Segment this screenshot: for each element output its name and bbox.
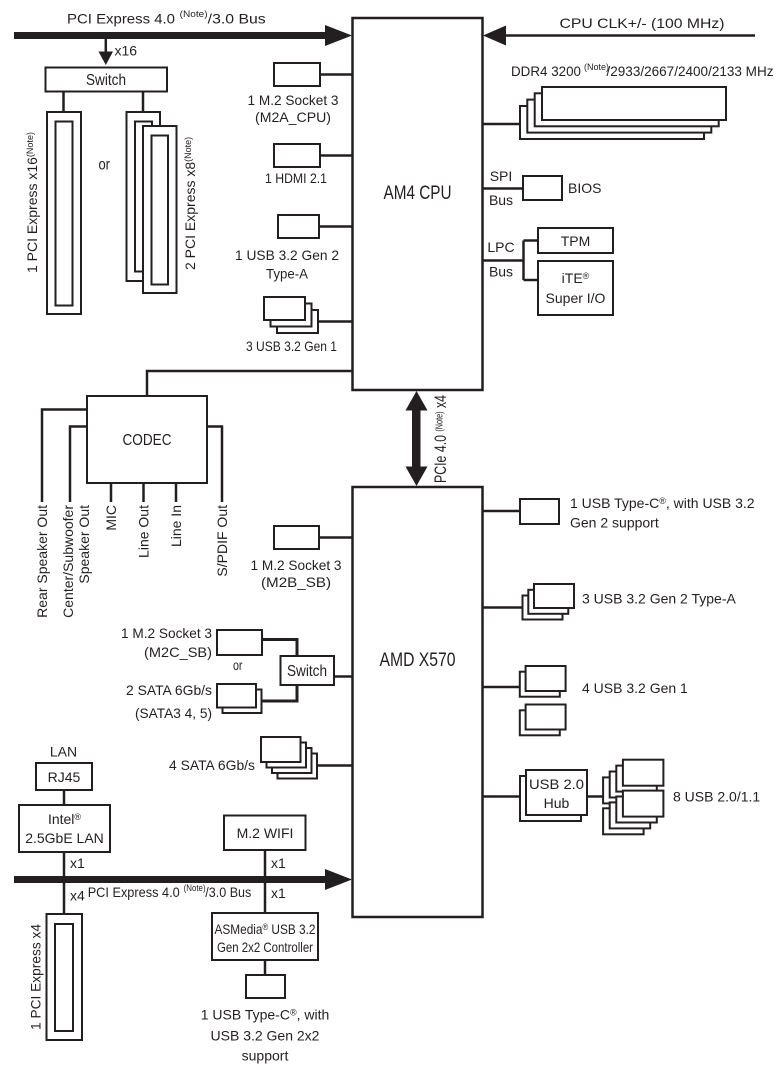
label: PCI Express 4.0/3.0 Bus (top)	[67, 9, 266, 27]
wire: switch to PCIe x16 slot	[62, 92, 65, 113]
CPU U1: AM4 CPU	[353, 18, 483, 390]
label: 2 SATA 6Gb/s (SATA3 4, 5)	[126, 682, 212, 721]
chip U4: iTE Super I/O	[538, 261, 613, 315]
chip U9: Intel 2.5GbE LAN	[19, 805, 110, 852]
wire: X570 to USB hub	[483, 795, 520, 798]
svg-text:CPU CLK+/- (100 MHz): CPU CLK+/- (100 MHz)	[560, 15, 725, 31]
svg-text:S/PDIF Out: S/PDIF Out	[214, 505, 230, 577]
svg-text:PCI Express 4.0: PCI Express 4.0	[88, 884, 180, 900]
controller U10: ASMedia USB 3.2 Gen 2x2	[212, 913, 318, 960]
wire: PCIe 4.0 x4 double arrow CPU to X570	[406, 391, 428, 486]
wire: top PCIe bus with right arrowhead into CPU	[14, 25, 352, 46]
connector: M.2 WIFI socket	[224, 816, 306, 851]
svg-text:Gen 2x2 Controller: Gen 2x2 Controller	[217, 939, 313, 955]
svg-text:Hub: Hub	[544, 795, 570, 811]
switch U7: M2C/SATA switch	[281, 656, 335, 685]
wire: hub to 8 USB stack	[587, 795, 603, 798]
label: Center/Subwoofer Speaker Out (vertical)	[60, 505, 92, 618]
svg-text:LPC: LPC	[487, 239, 514, 255]
svg-text:4 USB 3.2 Gen 1: 4 USB 3.2 Gen 1	[582, 680, 688, 696]
svg-text:M.2 WIFI: M.2 WIFI	[237, 825, 294, 841]
memory U2: BIOS flash	[523, 176, 562, 200]
wire: CPU CLK line with left arrowhead into CPU	[483, 26, 755, 46]
svg-text:(SATA3 4, 5): (SATA3 4, 5)	[135, 705, 212, 721]
svg-text:1 USB 3.2 Gen 2: 1 USB 3.2 Gen 2	[235, 247, 339, 263]
label: 1 M.2 Socket 3 (M2A_CPU)	[248, 92, 339, 125]
wire: HDMI to CPU	[320, 154, 352, 157]
connector: PCI Express x8 slot 1	[127, 112, 161, 281]
svg-text:Super I/O: Super I/O	[546, 290, 606, 306]
svg-text:PCIe 4.0 (Note) x4: PCIe 4.0 (Note) x4	[431, 395, 450, 483]
svg-text:3 USB 3.2 Gen 2 Type-A: 3 USB 3.2 Gen 2 Type-A	[582, 591, 736, 607]
wire: codec to Rear Speaker Out	[42, 410, 87, 503]
label: LPC Bus	[487, 239, 514, 280]
svg-text:(M2B_SB): (M2B_SB)	[261, 574, 331, 590]
svg-text:x1: x1	[70, 855, 85, 871]
svg-text:PCI Express 4.0: PCI Express 4.0	[67, 11, 175, 27]
wire: codec to S/PDIF Out	[207, 427, 222, 503]
svg-text:/3.0 Bus: /3.0 Bus	[205, 884, 251, 900]
svg-text:Line Out: Line Out	[136, 505, 152, 558]
svg-text:1 M.2 Socket 3: 1 M.2 Socket 3	[251, 557, 342, 573]
wire: codec to Center/Subwoofer	[70, 427, 87, 503]
svg-text:CODEC: CODEC	[123, 432, 172, 449]
module U3: TPM	[538, 228, 613, 253]
connector: 4 SATA 6Gb/s ports (stack of 4)	[261, 737, 317, 779]
svg-text:or: or	[99, 157, 111, 174]
svg-text:2 SATA 6Gb/s: 2 SATA 6Gb/s	[126, 682, 212, 698]
connector: M.2 socket M2C_SB	[217, 630, 262, 655]
label: PCI Express 4.0/3.0 Bus (bottom)	[88, 883, 252, 900]
hub U8: USB 2.0 hub	[520, 770, 587, 821]
svg-text:1 PCI Express x4: 1 PCI Express x4	[28, 924, 44, 1030]
svg-text:Rear Speaker Out: Rear Speaker Out	[34, 505, 50, 618]
wire: X570 to Gen1 stack	[483, 686, 520, 689]
svg-text:/3.0 Bus: /3.0 Bus	[208, 11, 266, 27]
wire: M2B socket to X570	[319, 536, 352, 539]
svg-text:Gen 2 support: Gen 2 support	[570, 515, 659, 531]
wire: bus to PCIe x4 slot (x4)	[63, 883, 66, 914]
svg-text:4 SATA 6Gb/s: 4 SATA 6Gb/s	[169, 757, 255, 773]
wire: USB 3.2 Gen 1 stack to CPU	[318, 320, 352, 323]
connector: 8 USB 2.0/1.1 ports (two stacks of 4)	[603, 760, 663, 835]
wire: SPI bus CPU to BIOS	[483, 187, 523, 190]
connector: RJ45 jack	[36, 763, 92, 790]
svg-text:1 M.2 Socket 3: 1 M.2 Socket 3	[121, 625, 212, 641]
wire: LAN chip to bus (x1)	[63, 852, 66, 876]
wire: bottom PCIe bus with right arrowhead into X570	[14, 869, 352, 890]
wire: switch to X570	[334, 675, 352, 678]
svg-text:Type-A: Type-A	[266, 266, 309, 282]
wire: SATA stack to switch	[262, 685, 298, 701]
svg-text:AM4 CPU: AM4 CPU	[384, 183, 452, 204]
label: 1 M.2 Socket 3 (M2B_SB)	[251, 557, 342, 590]
label: DDR4 3200 (Note)/2933/2667/2400/2133 MHz	[511, 62, 774, 79]
connector: HDMI 2.1 port	[274, 144, 320, 167]
label: 1 M.2 Socket 3 (M2C_SB)	[121, 625, 212, 660]
svg-text:RJ45: RJ45	[48, 769, 81, 785]
svg-text:8 USB 2.0/1.1: 8 USB 2.0/1.1	[673, 789, 760, 805]
svg-text:3 USB 3.2 Gen 1: 3 USB 3.2 Gen 1	[246, 338, 337, 354]
connector: DDR4 DIMM slots (stack of 4)	[520, 87, 726, 139]
wire: bus to ASMedia controller (x1)	[264, 883, 267, 913]
svg-text:BIOS: BIOS	[568, 180, 601, 196]
svg-text:1 M.2 Socket 3: 1 M.2 Socket 3	[248, 92, 339, 108]
svg-text:(Note): (Note)	[184, 883, 206, 893]
connector: PCI Express x8 slot 2	[143, 126, 177, 293]
connector: PCI Express x16 slot	[47, 112, 81, 314]
wire: 4 SATA stack to X570	[317, 764, 352, 767]
svg-text:x16: x16	[115, 43, 138, 59]
svg-text:USB 3.2 Gen 2x2: USB 3.2 Gen 2x2	[211, 1028, 320, 1044]
svg-text:DDR4 3200: DDR4 3200	[511, 63, 581, 79]
wire: CPU to CODEC	[147, 371, 352, 396]
svg-text:(M2A_CPU): (M2A_CPU)	[255, 109, 331, 125]
svg-text:SPI: SPI	[490, 168, 513, 184]
svg-text:(Note): (Note)	[180, 9, 208, 19]
svg-text:2.5GbE LAN: 2.5GbE LAN	[25, 830, 104, 846]
label: 1 USB Type-C with USB 3.2 Gen 2 support	[570, 495, 755, 531]
svg-text:Speaker Out: Speaker Out	[76, 505, 92, 584]
svg-text:USB 2.0: USB 2.0	[529, 776, 584, 792]
wire: LPC bus bracket from CPU	[483, 241, 538, 281]
svg-text:Center/Subwoofer: Center/Subwoofer	[60, 505, 76, 618]
connector: 3 USB 3.2 Gen 1 ports (stack)	[264, 297, 318, 333]
label: 1 USB 3.2 Gen 2 Type-A	[235, 247, 339, 282]
wire: x16 down arrow from bus to Switch	[99, 39, 114, 65]
connector: USB Type-C Gen 2x2 port	[246, 975, 285, 998]
wire: CPU to DIMMs	[483, 123, 520, 126]
wire: codec to MIC	[110, 483, 113, 502]
connector: 2 SATA ports SATA3 4,5 (stack)	[217, 684, 262, 713]
svg-text:Switch: Switch	[86, 72, 126, 89]
connector: M.2 socket M2A_CPU	[274, 63, 320, 86]
wire: USB 3.2 Gen 2 Type-A to CPU	[319, 225, 352, 228]
svg-text:or: or	[233, 658, 243, 673]
svg-text:AMD X570: AMD X570	[380, 650, 456, 671]
svg-text:x1: x1	[271, 885, 286, 901]
wire: X570 to USB Type-C Gen2 port	[483, 510, 520, 513]
svg-text:x1: x1	[271, 855, 286, 871]
wire: codec to Line Out	[142, 483, 145, 502]
connector: PCI Express x4 slot	[47, 914, 83, 1040]
svg-text:1 HDMI 2.1: 1 HDMI 2.1	[265, 170, 327, 186]
svg-text:(Note): (Note)	[584, 62, 609, 72]
svg-text:MIC: MIC	[103, 505, 119, 531]
svg-text:support: support	[242, 1048, 289, 1064]
wire: M2C to switch	[262, 640, 297, 657]
label: 1 USB Type-C with USB 3.2 Gen 2x2 support	[201, 1007, 330, 1064]
wire: M.2 WIFI to bus (x1)	[264, 851, 267, 876]
svg-text:Line In: Line In	[168, 505, 184, 547]
svg-text:1 USB Type-C®, with: 1 USB Type-C®, with	[201, 1007, 330, 1023]
wire: codec to Line In	[175, 483, 178, 502]
chipset U6: AMD X570	[353, 487, 483, 917]
connector: USB Type-C Gen 2 port	[520, 499, 559, 524]
svg-text:TPM: TPM	[561, 233, 591, 249]
svg-text:LAN: LAN	[50, 744, 77, 760]
wire: ASMedia to USB Type-C port	[264, 960, 267, 975]
wire: RJ45 to LAN chip	[63, 790, 66, 805]
wire: M2A socket to CPU	[320, 73, 352, 76]
svg-text:(M2C_SB): (M2C_SB)	[144, 644, 212, 660]
label: SPI Bus	[489, 168, 513, 208]
connector: M.2 socket M2B_SB	[274, 526, 319, 549]
wire: X570 to Gen2 Type-A stack	[483, 606, 523, 609]
svg-text:Bus: Bus	[489, 264, 513, 280]
connector: USB 3.2 Gen 2 Type-A port	[278, 215, 319, 238]
connector: 4 USB 3.2 Gen 1 ports (two stacks)	[520, 666, 566, 735]
wire: switch to PCIe x8 slots	[142, 92, 145, 113]
svg-text:Switch: Switch	[287, 663, 327, 680]
svg-text:Bus: Bus	[489, 192, 513, 208]
svg-text:x4: x4	[70, 888, 85, 904]
svg-text:/2933/2667/2400/2133 MHz: /2933/2667/2400/2133 MHz	[607, 63, 774, 79]
switch U_SW1 (PCIe lane switch)	[46, 68, 168, 92]
chip U5: audio CODEC	[87, 396, 207, 483]
connector: 3 USB 3.2 Gen 2 Type-A ports (stack)	[523, 584, 575, 620]
